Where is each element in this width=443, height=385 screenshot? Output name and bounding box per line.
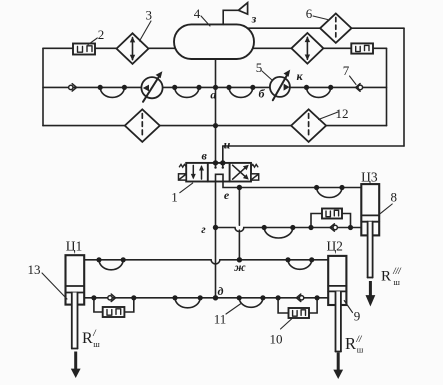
svg-text:д: д [218, 284, 224, 298]
hose arc on line г [264, 228, 293, 239]
leader 1 [180, 183, 193, 193]
wire: branch е to ж (vertical 2) [238, 188, 240, 226]
leader 4 [201, 16, 210, 26]
leader 2 [88, 38, 97, 45]
filter (left, on line F) [125, 109, 160, 142]
svg-text:R: R [345, 334, 356, 353]
wire: line "и" horizontal [223, 145, 404, 147]
svg-text:4: 4 [194, 6, 201, 21]
svg-text:/: / [92, 328, 97, 338]
wire: line г with hop over vertical 2 [216, 228, 363, 232]
leader 5 [262, 71, 272, 80]
leader 12 [319, 112, 339, 120]
leader 9 [344, 301, 352, 313]
wire: left vertical bus [42, 48, 44, 125]
check valve at Ц3 (line г) [330, 224, 337, 231]
svg-text:е: е [224, 188, 230, 202]
svg-text:12: 12 [336, 106, 349, 121]
hose arc on line B (1) [100, 87, 124, 97]
heat exchanger 3 [117, 33, 149, 64]
node on line F [213, 123, 218, 128]
valve 1: left spring [179, 164, 186, 167]
check valve (line B left) [69, 84, 77, 91]
svg-text:9: 9 [354, 308, 361, 323]
leader lines for number labels [42, 16, 392, 329]
heat exchanger (right, on line T2) [291, 33, 323, 64]
wire: line д [83, 297, 329, 299]
leader 7 [350, 76, 357, 85]
hose arc on line д (1) [175, 298, 200, 308]
svg-text:///: /// [392, 266, 402, 276]
filter 6 [320, 14, 351, 43]
svg-text:г: г [201, 222, 206, 236]
valve 1: left pilot box [179, 174, 187, 180]
valve 1: right pilot box [251, 174, 259, 180]
cylinder Ц3 [361, 184, 379, 277]
force arrow R''ш under Ц2 [333, 353, 343, 380]
cylinder Ц2 [328, 256, 346, 352]
svg-text:1: 1 [171, 190, 178, 205]
dots on line д [91, 295, 96, 300]
svg-text:8: 8 [390, 190, 397, 205]
bypass loop at cylinder Ц2 [278, 298, 288, 313]
svg-text:з: з [251, 12, 257, 26]
svg-text:и: и [224, 138, 231, 152]
wire: line A (top feed) [43, 47, 176, 49]
breather pipe on reservoir [223, 10, 238, 24]
svg-text:Ц3: Ц3 [361, 170, 378, 185]
filter 12 [291, 109, 326, 142]
leader 8 [380, 204, 393, 214]
hose arc on line е [317, 188, 342, 198]
valve 1: left cell arrows [191, 165, 204, 179]
node dots on line B [98, 85, 103, 90]
throttle 2 (plate restrictor) [73, 44, 95, 55]
wire: valve left leg down to node д [215, 174, 217, 297]
svg-text:10: 10 [270, 332, 283, 347]
svg-text:к: к [296, 69, 303, 83]
svg-text:5: 5 [256, 60, 263, 75]
svg-text:Ц1: Ц1 [66, 239, 83, 254]
svg-text:3: 3 [145, 8, 152, 23]
wire: line T2 (to cooler and throttle) [252, 47, 387, 49]
svg-text:11: 11 [214, 312, 227, 327]
wire: inner right vertical [386, 48, 388, 125]
hose arc on line д (2) [239, 298, 263, 308]
flow meter (left circle with arrow) [141, 71, 162, 102]
hose arc on line B (2) [175, 87, 199, 97]
leader 11 [226, 304, 241, 315]
directional valve 1: body [186, 163, 251, 182]
wire: line ж with hop over center leg [84, 260, 328, 264]
dots on line е [237, 185, 242, 190]
breather triangle (air vent) [238, 3, 247, 14]
check valve at Ц1 (line д left) [108, 294, 116, 301]
svg-text:13: 13 [28, 262, 41, 277]
wire: line "и" drop to valve [222, 146, 224, 163]
dots on line г [213, 225, 218, 230]
valve 1: right cell crossed arrows [233, 165, 249, 180]
wire: outer right vertical [403, 28, 405, 146]
svg-text:в: в [202, 149, 208, 163]
svg-text:7: 7 [343, 63, 350, 78]
svg-text:ш: ш [393, 277, 400, 287]
valve top port dots [213, 160, 218, 165]
leader 6 [313, 16, 328, 20]
svg-text:ш: ш [93, 339, 100, 349]
wire: valve right leg [223, 174, 361, 187]
hose arc on line B (4) [307, 87, 331, 97]
svg-text:R: R [82, 330, 93, 347]
bypass loop at cylinder Ц1 [94, 298, 103, 312]
check valve at Ц2 (line д right) [296, 294, 303, 301]
force arrow R'''ш under Ц3 [366, 281, 376, 307]
throttle 10 (bypass at Ц2) [289, 308, 310, 318]
wire: line T1 (upper right, to filter 6) [248, 27, 405, 29]
wire: line B (middle bus with meters) [43, 86, 387, 88]
check valve 7 [356, 84, 363, 92]
variable orifice 5 (circle with arrow) [270, 70, 290, 101]
svg-text:2: 2 [98, 27, 105, 42]
hose arc on line B (3) [229, 87, 253, 97]
dots on line ж [96, 257, 101, 262]
cylinder Ц1 [66, 255, 85, 348]
valve 1: middle cell blocked ports [214, 163, 224, 182]
reservoir/accumulator 4 [174, 24, 254, 59]
leader 10 [281, 319, 292, 329]
bypass loop at cylinder Ц3 [311, 214, 322, 228]
svg-text:Ц2: Ц2 [326, 239, 343, 254]
leader 13 [42, 273, 67, 299]
svg-text://: // [356, 334, 364, 344]
svg-text:6: 6 [306, 6, 313, 21]
svg-text:R: R [381, 269, 391, 285]
leader 3 [140, 21, 152, 41]
force arrow R'ш under Ц1 [71, 352, 81, 379]
wire: center vertical (tank to valve) [215, 59, 217, 163]
node а [213, 85, 218, 90]
throttle 8-line (bypass at Ц3) [322, 209, 342, 219]
hose arc on line ж (1) [99, 260, 123, 270]
throttle 13 (bypass at Ц1) [103, 307, 125, 317]
throttle on line T2 (plate restrictor) [351, 43, 373, 53]
svg-text:ш: ш [357, 345, 364, 355]
svg-text:б: б [259, 87, 266, 101]
wire: line F (filter return bus) [43, 125, 387, 127]
svg-text:а: а [210, 87, 216, 101]
svg-text:ж: ж [234, 260, 246, 274]
valve 1: right spring [251, 164, 258, 167]
hose arc on line ж (2) [288, 260, 312, 270]
